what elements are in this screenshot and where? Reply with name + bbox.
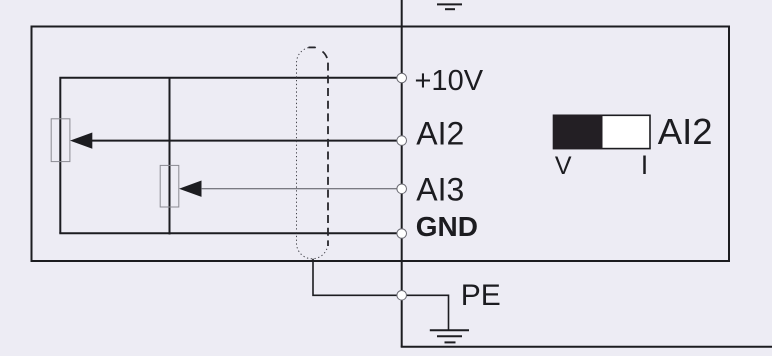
ground symbol (PE): [430, 330, 469, 342]
arrow into R1 wiper: [70, 133, 92, 149]
outer box: drive enclosure: [32, 27, 730, 262]
wire: vertical trunk line: [401, 0, 403, 347]
potentiometer R2 (AI3 source): [160, 165, 179, 207]
svg-text:GND: GND: [416, 211, 478, 242]
switch SW slider (black, V position): [553, 115, 603, 149]
wire: middle branch vertical: [169, 78, 171, 235]
svg-text:V: V: [555, 152, 572, 180]
svg-text:I: I: [641, 150, 649, 180]
arrow into R2 wiper: [179, 181, 202, 197]
ground symbol (top, partially cut off): [437, 4, 462, 9]
svg-text:AI2: AI2: [658, 111, 713, 152]
terminal AI3: [397, 184, 407, 194]
terminal +10V: [397, 73, 407, 83]
svg-text:+10V: +10V: [415, 65, 484, 97]
wire: PE to ground: [402, 295, 449, 330]
switch SW (AI2 V/I selector) body: [554, 115, 651, 148]
svg-text:PE: PE: [461, 279, 501, 312]
terminal GND: [397, 229, 407, 239]
terminal PE: [397, 291, 407, 301]
wire: AI2 signal: [92, 140, 398, 142]
svg-text:AI3: AI3: [416, 171, 464, 207]
svg-text:AI2: AI2: [416, 115, 464, 151]
wire: AI3 signal: [201, 188, 397, 190]
cable shield (screen), stadium outline: [296, 47, 327, 259]
wire: GND line / bottom of source loop: [59, 232, 397, 234]
wire: +10V line / top of source loop: [60, 78, 397, 233]
wire: bottom horizontal to right edge: [401, 346, 772, 348]
terminal AI2: [397, 136, 407, 146]
potentiometer R1 (AI2 source): [51, 119, 70, 162]
wire: shield drain to PE: [313, 259, 397, 296]
